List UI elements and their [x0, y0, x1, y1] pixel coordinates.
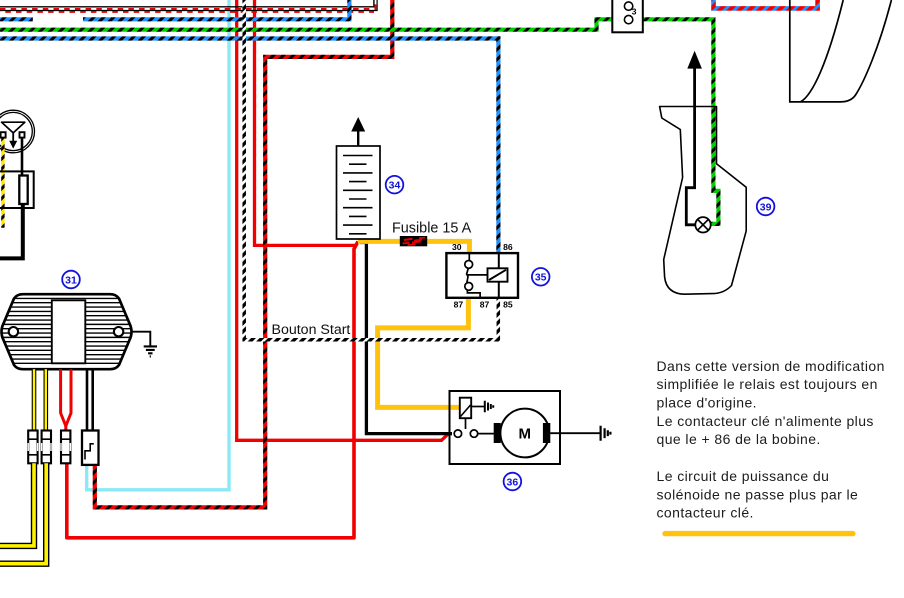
svg-text:36: 36 — [507, 476, 519, 488]
svg-text:Bouton Start: Bouton Start — [272, 322, 351, 338]
svg-text:Fusible 15 A: Fusible 15 A — [392, 221, 472, 237]
svg-text:87: 87 — [454, 299, 464, 309]
svg-text:35: 35 — [535, 272, 547, 284]
svg-text:86: 86 — [503, 242, 513, 252]
svg-text:87: 87 — [480, 299, 490, 309]
svg-text:Dans cette version de modifica: Dans cette version de modification — [657, 358, 885, 374]
svg-text:place d'origine.: place d'origine. — [657, 395, 757, 411]
svg-text:contacteur clé.: contacteur clé. — [657, 505, 754, 521]
svg-text:Le circuit de puissance du: Le circuit de puissance du — [657, 468, 830, 484]
svg-text:M: M — [519, 426, 532, 443]
svg-text:39: 39 — [760, 201, 772, 213]
svg-text:85: 85 — [503, 299, 513, 309]
svg-text:34: 34 — [389, 180, 401, 192]
svg-text:que le + 86 de la bobine.: que le + 86 de la bobine. — [657, 431, 821, 447]
svg-text:simplifiée le relais est toujo: simplifiée le relais est toujours en — [657, 376, 878, 392]
svg-text:Le contacteur clé n'alimente p: Le contacteur clé n'alimente plus — [657, 413, 874, 429]
svg-text:30: 30 — [452, 242, 462, 252]
svg-text:3: 3 — [632, 7, 637, 17]
svg-text:solénoide ne passe plus par le: solénoide ne passe plus par le — [657, 486, 859, 502]
svg-text:31: 31 — [65, 274, 77, 286]
